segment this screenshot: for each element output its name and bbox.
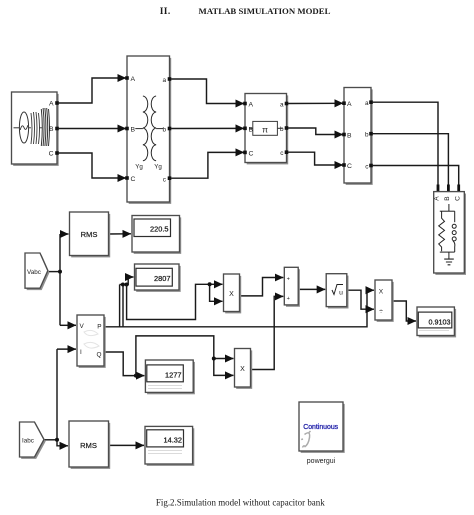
wire P output to junction riser — [119, 285, 121, 327]
wire Q output to display 1277 — [104, 352, 144, 376]
svg-text:RMS: RMS — [81, 230, 98, 239]
display 1277 — [145, 360, 195, 394]
svg-text:I: I — [80, 349, 82, 356]
svg-text:14.32: 14.32 — [164, 436, 183, 445]
wire P feedback to divide X input — [122, 285, 124, 327]
svg-text:π: π — [262, 124, 268, 134]
svg-text:Yg: Yg — [135, 164, 143, 171]
svg-text:X: X — [229, 291, 234, 298]
wire product X2 to sum lower input — [251, 296, 284, 369]
svg-text:B: B — [444, 196, 451, 201]
wire RMS2 to display 14.32 — [109, 444, 145, 446]
svg-text:A: A — [249, 102, 254, 109]
wire product X1 to sum — [240, 278, 284, 296]
wire Q route to product X2 inputs — [136, 336, 214, 376]
divide block — [375, 280, 394, 322]
three-phase parallel RLC load — [434, 185, 467, 275]
svg-text:Iabc: Iabc — [22, 438, 34, 445]
wire pi-section b to measurement B — [287, 128, 344, 135]
svg-text:RMS: RMS — [80, 441, 97, 450]
svg-text:B: B — [131, 127, 136, 134]
svg-text:B: B — [49, 126, 54, 133]
svg-text:b: b — [365, 132, 369, 139]
svg-text:B: B — [347, 132, 352, 139]
svg-text:a: a — [280, 102, 284, 109]
node product X1 input junction — [208, 282, 212, 286]
active reactive power measurement block — [77, 315, 106, 368]
svg-text:powergui: powergui — [307, 458, 336, 465]
svg-text:a: a — [365, 100, 369, 107]
wire source A to transformer A — [57, 78, 126, 103]
wire sqrt to divide lower input — [347, 290, 374, 309]
svg-text:A: A — [131, 76, 136, 83]
svg-text:1277: 1277 — [165, 371, 181, 380]
svg-text:u: u — [339, 290, 343, 297]
three-phase transformer — [125, 56, 171, 204]
Iabc from tag — [20, 422, 46, 459]
svg-text:C: C — [131, 176, 136, 183]
wire Iabc tag to RMS2 and PQ I input — [44, 439, 57, 441]
RMS block RMS2 — [69, 421, 110, 469]
wire P junction row to display 2807 — [120, 277, 134, 285]
sqrt block — [326, 274, 348, 309]
svg-text:2807: 2807 — [154, 274, 170, 283]
wire measurement c to load C — [371, 166, 459, 187]
product block X2 — [235, 349, 253, 389]
svg-text:220.5: 220.5 — [150, 225, 169, 234]
wire P route to product X1 inputs — [127, 284, 210, 319]
display 0.9103 — [417, 307, 456, 337]
sum block — [284, 267, 300, 307]
svg-text:A: A — [49, 101, 54, 108]
wire source C to transformer C — [57, 153, 126, 178]
wire measurement b to load B — [371, 134, 448, 186]
wire transformer a to pi-section A — [170, 79, 245, 104]
svg-text:0.9103: 0.9103 — [429, 318, 451, 327]
svg-text:V: V — [80, 323, 85, 330]
powergui block — [299, 402, 345, 465]
node Vabc junction — [58, 270, 62, 274]
wire measurement a to load A — [371, 102, 438, 186]
wire Vabc tag to RMS1 and PQ V input — [48, 271, 60, 273]
node Q junction — [134, 374, 138, 378]
wire RMS1 to display 220.5 — [109, 233, 132, 235]
svg-text:Continuous: Continuous — [303, 424, 338, 431]
wire source B to transformer B — [57, 128, 126, 130]
wire pi-section c to measurement C — [287, 152, 344, 165]
display 14.32 — [145, 426, 194, 466]
svg-text:Yg: Yg — [154, 164, 162, 171]
svg-text:÷: ÷ — [379, 309, 383, 316]
svg-text:C: C — [454, 196, 461, 201]
svg-text:A: A — [434, 196, 441, 201]
display 220.5 — [132, 216, 181, 254]
wire transformer c to pi-section C — [170, 152, 245, 178]
svg-text:Vabc: Vabc — [27, 269, 41, 276]
wire pi-section a to measurement A — [287, 102, 344, 104]
display 2807 — [135, 264, 181, 292]
wire divide to display 0.9103 — [392, 301, 416, 321]
svg-text:Fig.2.Simulation model without: Fig.2.Simulation model without capacitor… — [156, 498, 325, 508]
three-phase V-I measurement — [342, 88, 373, 185]
wire transformer b to pi-section B — [170, 127, 245, 129]
wire sum to sqrt — [298, 288, 325, 290]
Vabc from tag — [25, 253, 50, 290]
node product X2 input junction — [212, 357, 216, 361]
svg-text:+: + — [287, 276, 290, 282]
node P junction 2 — [125, 283, 129, 287]
svg-text:X: X — [240, 366, 245, 373]
svg-text:C: C — [347, 163, 352, 170]
ground — [448, 252, 450, 259]
pi-section line — [243, 94, 288, 165]
three-phase source — [12, 92, 59, 166]
svg-text:Q: Q — [97, 352, 102, 359]
svg-text:P: P — [97, 324, 101, 331]
RMS block RMS1 — [70, 212, 111, 257]
node Iabc junction — [55, 438, 59, 442]
product block X1 — [224, 274, 242, 313]
title text — [160, 6, 331, 17]
svg-text:b: b — [280, 126, 284, 133]
svg-text:X: X — [379, 289, 384, 296]
node P junction 1 — [121, 283, 125, 287]
svg-text:+: + — [287, 296, 290, 302]
svg-text:II.: II. — [160, 7, 171, 17]
svg-text:C: C — [49, 151, 54, 158]
svg-text:A: A — [347, 101, 352, 108]
svg-text:C: C — [249, 150, 254, 157]
svg-text:a: a — [162, 77, 166, 84]
svg-text:b: b — [162, 127, 166, 134]
svg-text:MATLAB SIMULATION MODEL: MATLAB SIMULATION MODEL — [199, 6, 331, 16]
